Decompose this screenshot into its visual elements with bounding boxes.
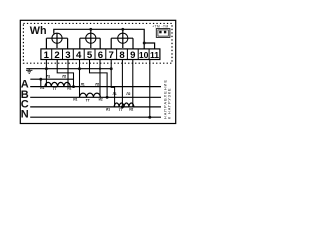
wire T8 voltage tap C bbox=[121, 60, 123, 107]
ground symbol bbox=[26, 69, 32, 74]
junction dot jumper bbox=[143, 42, 146, 45]
svg-text:И2: И2 bbox=[67, 86, 71, 90]
svg-text:Л1: Л1 bbox=[81, 83, 85, 87]
junction dot T6-ground bbox=[99, 68, 101, 70]
svg-text:ТТ: ТТ bbox=[53, 87, 57, 91]
wire T1 to CT1 primary-left bbox=[45, 60, 47, 87]
wire T4 to CT2 bbox=[79, 60, 81, 98]
meter element 1 (circle with cross) bbox=[52, 33, 62, 43]
right side vertical captions bbox=[163, 80, 171, 119]
meter dashed enclosure bbox=[23, 23, 172, 63]
element 2 current leads bbox=[80, 38, 100, 49]
svg-text:Wh: Wh bbox=[30, 25, 47, 37]
terminal dividers bbox=[52, 49, 149, 60]
voltage common chain wire bbox=[54, 29, 144, 49]
bus C bbox=[30, 106, 161, 108]
junction dot tap-B on bus bbox=[106, 96, 109, 99]
junction dot T4-ground bbox=[78, 67, 81, 70]
element 2 crossbar bbox=[80, 33, 100, 48]
outer frame bbox=[20, 20, 175, 123]
svg-text:Л1: Л1 bbox=[113, 92, 117, 96]
svg-text:И2: И2 bbox=[99, 98, 103, 102]
svg-text:Л1: Л1 bbox=[46, 75, 50, 79]
element 3 current leads bbox=[111, 38, 133, 49]
svg-text:И2: И2 bbox=[129, 107, 133, 111]
element 1 crossbar bbox=[46, 33, 67, 48]
wire T3 to CT1 secondary-right bbox=[67, 60, 69, 87]
junction dot upper link bbox=[39, 78, 42, 81]
ground common wire bbox=[26, 68, 111, 70]
meter element 3 (circle with cross) bbox=[118, 33, 128, 43]
terminal numbers 1-11 bbox=[44, 50, 160, 61]
junction dot N bbox=[148, 116, 151, 119]
svg-text:К НАГРУЗКЕ: К НАГРУЗКЕ bbox=[167, 88, 171, 119]
CT2 secondary winding bbox=[80, 93, 101, 97]
junction dot element3 tap bbox=[121, 28, 124, 31]
svg-text:+TM -TM: +TM -TM bbox=[152, 25, 168, 29]
vertical link A bbox=[40, 79, 42, 86]
bus N bbox=[30, 116, 161, 118]
svg-text:N: N bbox=[21, 109, 29, 121]
svg-text:ТТ: ТТ bbox=[86, 98, 90, 102]
wire T5 voltage tap B bbox=[90, 60, 108, 98]
telemetry terminal 1 bbox=[159, 31, 161, 34]
element 1 current leads bbox=[46, 38, 67, 49]
bus A bbox=[30, 86, 161, 88]
svg-text:Л2: Л2 bbox=[126, 92, 130, 96]
junction dot element2 tap bbox=[89, 28, 92, 31]
wire T9 to CT3 secondary-right bbox=[132, 60, 134, 107]
terminal strip outline bbox=[41, 49, 160, 60]
svg-text:И1: И1 bbox=[106, 107, 110, 111]
meter element 2 (circle with cross) bbox=[86, 33, 96, 43]
tap to element 2 bbox=[90, 29, 92, 33]
CT labels bbox=[40, 75, 133, 113]
wire T6 to CT2 secondary-right bbox=[99, 60, 101, 98]
junction dot tap-A on bus bbox=[72, 85, 75, 88]
jumper terminal 10-11 bbox=[144, 43, 154, 49]
wire T7 to CT3 bbox=[111, 60, 114, 107]
svg-text:10: 10 bbox=[139, 50, 149, 60]
CT3 secondary winding bbox=[114, 103, 134, 107]
tap to element 3 bbox=[122, 29, 124, 33]
telemetry box outer bbox=[156, 29, 170, 38]
svg-text:И1: И1 bbox=[40, 86, 44, 90]
CT1 secondary winding bbox=[45, 82, 70, 86]
telemetry box inner bbox=[158, 30, 168, 36]
phase labels bbox=[21, 79, 29, 121]
bus B bbox=[30, 96, 161, 98]
svg-text:Л2: Л2 bbox=[95, 83, 99, 87]
wire T2 voltage tap A bbox=[57, 60, 73, 87]
svg-text:Л2: Л2 bbox=[62, 75, 66, 79]
junction dot T7-ground bbox=[110, 67, 113, 70]
svg-text:11: 11 bbox=[150, 50, 159, 60]
wire N to terminals bbox=[149, 60, 151, 118]
junction dot tap-C on bus bbox=[121, 105, 124, 108]
phase A upper link bbox=[30, 78, 73, 80]
element 3 crossbar bbox=[111, 33, 133, 48]
svg-text:И1: И1 bbox=[73, 98, 77, 102]
junction dot T1-ground bbox=[45, 67, 48, 70]
svg-text:ТТ: ТТ bbox=[119, 108, 123, 112]
telemetry terminal 2 bbox=[164, 31, 166, 34]
